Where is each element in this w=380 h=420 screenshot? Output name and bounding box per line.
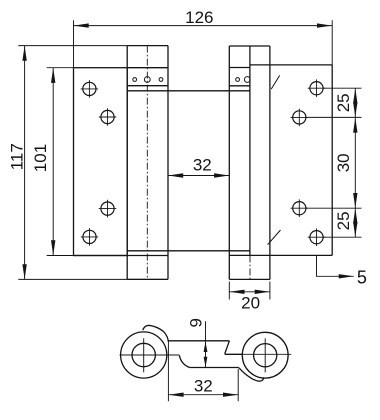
right barrel centerline: [249, 255, 251, 279]
svg-text:117: 117: [7, 143, 26, 170]
dimension 101: [47, 68, 74, 256]
svg-text:101: 101: [31, 144, 50, 172]
left knuckle cross: [120, 338, 180, 372]
dimension 117: [18, 46, 168, 280]
right knuckle cross: [242, 338, 291, 372]
dimension 32 middle: [168, 175, 229, 177]
svg-text:30: 30: [334, 153, 353, 172]
right barrel bracket screws: [236, 77, 251, 83]
hole L1: [83, 82, 96, 95]
svg-text:25: 25: [334, 211, 353, 230]
hole R2: [293, 111, 306, 124]
left barrel bracket screws: [133, 77, 163, 83]
right knuckle outer: [242, 332, 288, 378]
svg-text:32: 32: [193, 156, 212, 175]
svg-text:32: 32: [194, 376, 213, 395]
right spring leaf wrap: [239, 368, 264, 381]
hole R3: [293, 202, 306, 215]
left barrel: [127, 46, 168, 280]
right plate edge tick top: [271, 75, 280, 89]
centre leaf top edge: [127, 90, 250, 92]
dimension 32 bottom: [168, 342, 238, 401]
dimension chain 25/30/25: [306, 88, 361, 237]
hole R1: [310, 82, 323, 95]
right leaf edge over barrel: [249, 46, 251, 255]
centre leaf top edge (bottom view): [168, 341, 242, 355]
hole L4: [83, 230, 96, 243]
left knuckle outer: [121, 332, 167, 378]
dimension 20: [229, 282, 270, 300]
svg-text:126: 126: [185, 8, 213, 27]
svg-text:20: 20: [241, 293, 260, 312]
right knuckle inner: [254, 344, 277, 367]
plates bottom line left: [74, 255, 169, 257]
left barrel centerline: [146, 46, 148, 280]
hole L2: [101, 110, 114, 123]
svg-text:9: 9: [187, 318, 206, 327]
dimension 5 leader: [317, 255, 354, 276]
left spring leaf wrap: [143, 325, 169, 342]
left plate: [74, 68, 128, 256]
right plate edge tick bottom: [268, 230, 281, 245]
dimension 126 line: [74, 20, 333, 67]
centre leaf bottom edge (bottom view): [179, 355, 239, 367]
hole R4: [310, 231, 323, 244]
hole L3: [101, 202, 114, 215]
right plate: [229, 65, 332, 256]
dimension 126 arrows: [74, 23, 332, 27]
dimension 9: [205, 321, 207, 367]
svg-text:25: 25: [334, 93, 353, 112]
svg-text:5: 5: [357, 268, 367, 288]
right barrel: [229, 46, 270, 279]
centre leaf bottom edge: [127, 250, 250, 252]
left knuckle inner: [132, 343, 155, 366]
